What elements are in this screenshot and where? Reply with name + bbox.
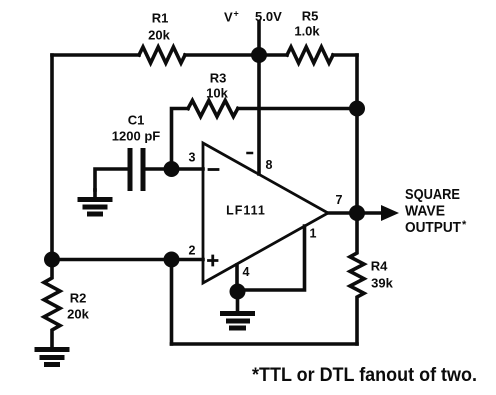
node output [349,205,365,221]
ground (pins 1,4) [236,292,240,312]
wire pin 1 loop [238,226,305,290]
svg-text:10k: 10k [206,86,228,101]
svg-text:1.0k: 1.0k [294,24,320,39]
svg-text:1200 pF: 1200 pF [112,129,160,144]
svg-text:+: + [234,9,239,19]
svg-text:20k: 20k [148,28,170,43]
svg-text:7: 7 [336,193,343,207]
node pin 2 / feedback [164,252,180,268]
svg-text:R2: R2 [70,291,87,306]
wire pin 2 [52,258,203,262]
tick mark near pin 8 [248,152,253,155]
capacitor C1 [128,151,133,189]
svg-text:*: * [462,219,467,231]
svg-text:LF111: LF111 [226,204,266,218]
wire C1 right lead [143,167,172,171]
wire R3 right lead [238,107,357,111]
wire top rail middle segment [185,53,287,57]
svg-text:2: 2 [189,244,196,258]
svg-text:39k: 39k [371,276,393,291]
resistor R5 [287,47,333,63]
op-amp U1 LF111 [203,143,328,283]
svg-text:1: 1 [310,227,317,241]
wire pin 3 [172,167,204,171]
svg-text:V: V [224,10,233,25]
wire feedback vertical [170,260,174,345]
node V+ junction [251,47,267,63]
svg-text:8: 8 [266,158,273,172]
output arrow [381,205,399,221]
svg-text:R4: R4 [371,259,388,274]
resistor R3 [188,101,238,117]
svg-text:OUTPUT: OUTPUT [405,220,461,236]
ground (R2) [37,347,67,352]
wire pin 4 stub [235,265,239,292]
svg-text:3: 3 [189,151,196,165]
node R3 / right rail junction [349,101,365,117]
ground (C1) [93,190,97,198]
wire bottom rail [172,342,358,346]
svg-text:20k: 20k [67,307,89,322]
svg-text:R3: R3 [210,71,227,86]
wire left rail [50,55,54,260]
svg-text:C1: C1 [128,113,145,128]
svg-text:R5: R5 [302,9,319,24]
wire R3 left lead [172,109,189,170]
power terminal V+ [257,22,261,55]
resistor R4 [350,213,364,344]
wire right rail [355,55,359,213]
wire top rail right corner [333,53,357,57]
svg-text:*TTL or DTL fanout of two.: *TTL or DTL fanout of two. [252,364,477,386]
svg-text:SQUARE: SQUARE [405,187,460,203]
wire top rail left segment [52,53,139,57]
svg-text:WAVE: WAVE [405,203,445,219]
svg-text:R1: R1 [152,11,169,26]
resistor R1 [139,47,185,63]
wire V+ to pin 8 [257,55,261,174]
svg-text:5.0V: 5.0V [255,9,282,24]
wire output [328,211,382,215]
svg-text:4: 4 [243,265,250,279]
node left rail / pin 2 [44,252,60,268]
wire C1 left lead [95,169,130,190]
node pins 1 and 4 [230,284,246,300]
node pin 3 junction [164,161,180,177]
resistor R2 [44,260,60,349]
